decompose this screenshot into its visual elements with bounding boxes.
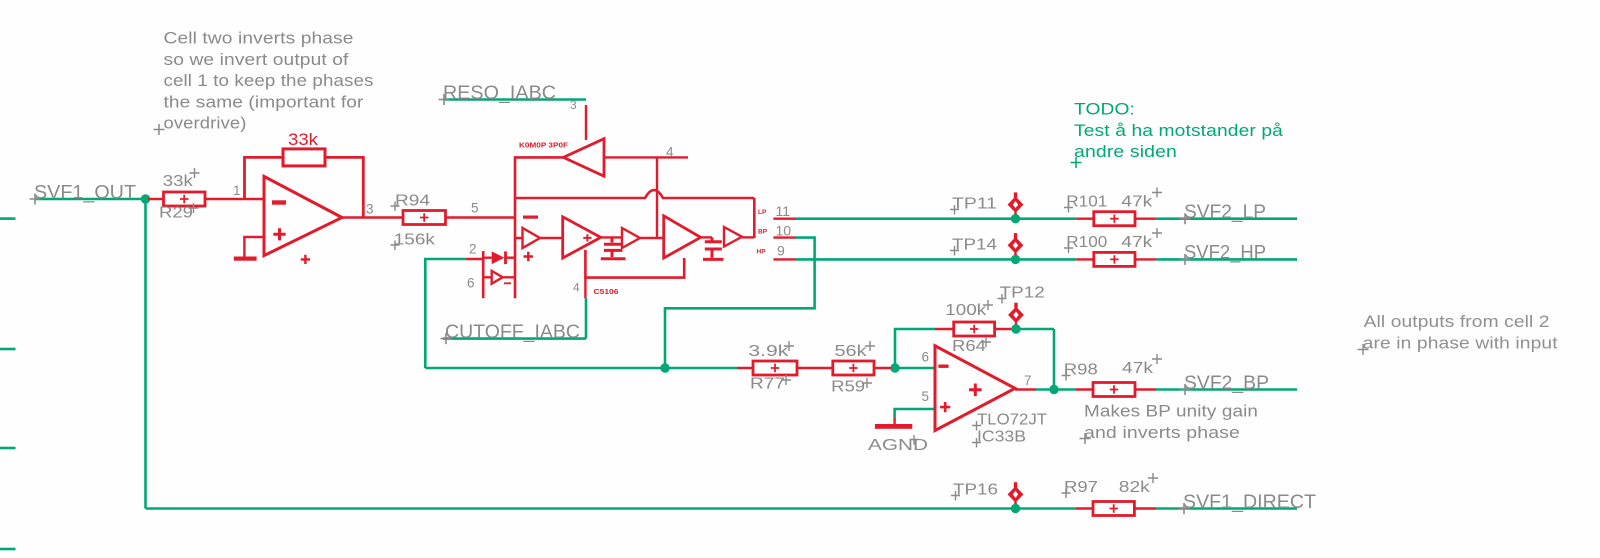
- wire opamp2 output: [1036, 388, 1076, 391]
- svg-text:82k: 82k: [1119, 479, 1151, 496]
- resistor R28 feedback 33k: [245, 149, 364, 218]
- node junction SVF1_OUT: [141, 194, 150, 203]
- test point TP14: [1008, 233, 1024, 264]
- wire BP pin routing down-left-down: [665, 238, 815, 368]
- filter IC integrator triangle 1: [563, 217, 601, 258]
- filter IC top rail with hop: [515, 190, 754, 198]
- test point TP11: [1008, 192, 1024, 223]
- wire LP output row: [796, 217, 1297, 220]
- svg-text:33k: 33k: [163, 173, 194, 190]
- node junction pin6: [890, 363, 899, 372]
- svg-text:Test å ha motstander på: Test å ha motstander på: [1074, 122, 1284, 140]
- filter IC top-left rail: [515, 157, 563, 298]
- svg-text:R59: R59: [831, 379, 865, 396]
- svg-text:RESO_IABC: RESO_IABC: [443, 82, 556, 104]
- svg-text:2: 2: [469, 242, 477, 257]
- resistor R29: [148, 192, 264, 206]
- svg-text:cell 1 to keep the phases: cell 1 to keep the phases: [164, 72, 374, 90]
- label TL072JT IC33B: [972, 412, 1047, 448]
- resistor R100: [1076, 252, 1156, 266]
- label TP11: [950, 196, 997, 215]
- wire R59 to opamp pin6: [891, 367, 935, 370]
- label TP16: [951, 482, 998, 501]
- svg-text:5: 5: [922, 389, 930, 404]
- svg-text:47k: 47k: [1121, 234, 1153, 251]
- node junction BP feed: [660, 363, 669, 372]
- wire CUTOFF_IABC label: [443, 337, 586, 340]
- filter IC pin 9 HP: [773, 258, 796, 260]
- wire CUTOFF_IABC up to pin: [585, 298, 588, 338]
- test point TP12: [1008, 303, 1024, 334]
- svg-text:SVF2_LP: SVF2_LP: [1184, 201, 1266, 223]
- svg-text:All outputs from cell 2: All outputs from cell 2: [1364, 313, 1550, 331]
- svg-text:C5106: C5106: [594, 287, 619, 296]
- ground AGND: [875, 418, 912, 429]
- filter IC pin 11 LP: [773, 217, 796, 219]
- op-amp IC33B TL072: [935, 346, 1036, 431]
- svg-text:4: 4: [666, 145, 674, 160]
- svg-text:andre siden: andre siden: [1074, 143, 1177, 161]
- pin number 3 opamp out: [366, 202, 374, 217]
- wire pin2 to left and down: [425, 259, 466, 368]
- pin number 2: [469, 242, 477, 257]
- filter IC bottom pin to CUTOFF: [584, 278, 586, 299]
- label feedback 33k red: [288, 130, 319, 149]
- filter IC pin 10 BP: [773, 236, 796, 238]
- svg-text:CUTOFF_IABC: CUTOFF_IABC: [445, 321, 580, 343]
- resistor R101: [1076, 212, 1156, 226]
- pin number 4: [666, 145, 674, 160]
- pin name BP: [758, 229, 768, 236]
- svg-text:SVF2_HP: SVF2_HP: [1184, 242, 1266, 264]
- pin number 5: [471, 201, 479, 216]
- svg-text:3: 3: [366, 202, 374, 217]
- pin number 1: [233, 183, 241, 198]
- filter IC vertical from pin4 to row: [656, 157, 658, 238]
- svg-text:156k: 156k: [394, 232, 436, 249]
- resistor R98: [1076, 383, 1156, 397]
- filter IC pin 4 line: [604, 156, 688, 158]
- svg-text:IC33B: IC33B: [977, 429, 1026, 446]
- pin number 3 top: [570, 98, 577, 112]
- filter IC diode pair pins 2 and 6: [466, 251, 515, 298]
- filter IC capacitor 1: [601, 237, 626, 258]
- resistor R94: [403, 211, 515, 225]
- filter IC integrator triangle 2: [664, 216, 701, 258]
- filter IC buffer amp B: [622, 228, 664, 248]
- svg-text:4: 4: [573, 281, 580, 295]
- resistor R77: [737, 361, 833, 375]
- svg-text:TLO72JT: TLO72JT: [977, 412, 1047, 429]
- svg-text:LP: LP: [758, 209, 767, 216]
- wire RESO_IABC label: [443, 98, 586, 101]
- pin name HP: [757, 249, 767, 256]
- svg-text:R29: R29: [159, 205, 193, 222]
- part text top small red: [519, 141, 568, 150]
- filter IC pin 3 RESO: [585, 105, 587, 140]
- note right side comment text: [1358, 313, 1559, 355]
- label R94 and 156k: [391, 192, 436, 250]
- node label CUTOFF_IABC: [441, 321, 581, 344]
- label AGND: [868, 435, 928, 454]
- label R64 100k: [945, 300, 993, 355]
- svg-text:100k: 100k: [945, 302, 987, 319]
- pin number 6 opamp: [922, 350, 930, 365]
- filter IC summer amp A: [515, 216, 563, 262]
- node label SVF2_BP: [1180, 372, 1270, 395]
- note top-left comment text: [154, 30, 374, 136]
- wire feedback down to output: [1053, 329, 1056, 390]
- svg-text:the same (important for: the same (important for: [164, 93, 364, 111]
- op-amp IC33A: [234, 176, 403, 264]
- pin number 9: [777, 243, 785, 259]
- svg-text:K0M0P 3P0F: K0M0P 3P0F: [519, 141, 568, 150]
- filter IC bottom feedback U loop: [585, 250, 684, 278]
- svg-text:SVF2_BP: SVF2_BP: [1184, 372, 1269, 394]
- wire bottom row after R97 to SVF1_DIRECT: [1156, 507, 1297, 510]
- label TP14: [950, 237, 997, 256]
- node label RESO_IABC: [439, 82, 557, 105]
- label R77 3.9k: [748, 341, 794, 393]
- svg-text:56k: 56k: [835, 343, 868, 360]
- svg-text:R94: R94: [395, 192, 430, 209]
- svg-text:SVF1_DIRECT: SVF1_DIRECT: [1183, 491, 1316, 513]
- wire pin5 to AGND: [895, 409, 935, 418]
- note Makes BP unity gain: [1080, 403, 1259, 445]
- svg-text:R64: R64: [952, 338, 986, 355]
- filter IC capacitor 2: [701, 237, 724, 259]
- svg-text:6: 6: [467, 276, 475, 291]
- wire feed row to R77: [425, 367, 737, 370]
- svg-text:6: 6: [922, 350, 930, 365]
- label R29 value 33k: [159, 168, 200, 222]
- label R101 47k: [1064, 188, 1162, 213]
- wire feedback up and right: [895, 329, 935, 368]
- pin name LP: [758, 209, 767, 216]
- label R97 82k: [1062, 473, 1159, 498]
- svg-text:5: 5: [471, 201, 479, 216]
- part text bottom small red C5106: [594, 287, 619, 296]
- svg-text:Cell two inverts phase: Cell two inverts phase: [164, 30, 354, 48]
- wire stub left edge 4: [0, 548, 16, 551]
- pin number 10: [776, 223, 792, 239]
- node label SVF2_LP: [1180, 201, 1267, 224]
- pin number 6 filter: [467, 276, 475, 291]
- wire SVF1_OUT input: [35, 198, 144, 201]
- wire stub left edge 3: [0, 447, 16, 450]
- svg-text:BP: BP: [758, 229, 768, 236]
- pin number 1 bottom filter: [573, 281, 580, 295]
- resistor R64: [935, 322, 1011, 336]
- label R98 47k: [1062, 354, 1163, 381]
- svg-text:are in phase with input: are in phase with input: [1363, 335, 1558, 353]
- svg-text:and inverts phase: and inverts phase: [1084, 424, 1240, 442]
- label TP12: [998, 285, 1045, 304]
- svg-text:33k: 33k: [288, 130, 319, 149]
- pin number 7 opamp: [1024, 373, 1032, 388]
- svg-text:so we invert output of: so we invert output of: [164, 51, 349, 69]
- svg-text:overdrive): overdrive): [164, 115, 247, 133]
- node label SVF1_DIRECT: [1179, 491, 1317, 514]
- svg-text:AGND: AGND: [868, 437, 928, 454]
- resistor R59: [833, 361, 891, 375]
- svg-text:11: 11: [776, 203, 791, 219]
- wire SVF1_OUT down to bottom row: [144, 199, 147, 509]
- filter IC right rail: [753, 198, 756, 238]
- svg-text:10: 10: [776, 223, 792, 239]
- svg-text:47k: 47k: [1121, 194, 1153, 211]
- wire feedback after R64: [1011, 328, 1054, 331]
- filter IC buffer amp C: [724, 227, 754, 247]
- svg-text:9: 9: [777, 243, 785, 259]
- label R59 56k: [831, 341, 875, 396]
- svg-text:1: 1: [233, 183, 241, 198]
- wire bottom row to R97: [146, 507, 1077, 510]
- svg-text:R77: R77: [750, 376, 785, 393]
- resistor R97: [1076, 502, 1156, 516]
- node junction output BP: [1049, 385, 1058, 394]
- wire stub left edge 2: [0, 348, 16, 351]
- pin number 5 opamp: [922, 389, 930, 404]
- svg-text:47k: 47k: [1122, 360, 1154, 377]
- label R100 47k: [1064, 228, 1162, 253]
- note TODO text: [1071, 101, 1284, 169]
- svg-text:7: 7: [1024, 373, 1032, 388]
- test point TP16: [1008, 482, 1024, 513]
- node label SVF2_HP: [1180, 242, 1267, 265]
- wire stub left edge 1: [0, 217, 16, 220]
- svg-text:TODO:: TODO:: [1074, 101, 1135, 119]
- svg-text:Makes BP unity gain: Makes BP unity gain: [1084, 403, 1258, 421]
- pin number 11: [776, 203, 791, 219]
- svg-text:SVF1_OUT: SVF1_OUT: [34, 181, 136, 203]
- svg-text:3.9k: 3.9k: [748, 343, 789, 360]
- svg-text:3: 3: [570, 98, 577, 112]
- wire HP output row: [796, 258, 1297, 261]
- node label SVF1_OUT: [30, 181, 137, 204]
- wire after R98 to SVF2_BP: [1156, 388, 1297, 391]
- svg-text:HP: HP: [757, 249, 767, 256]
- filter IC inverter triangle: [563, 139, 604, 177]
